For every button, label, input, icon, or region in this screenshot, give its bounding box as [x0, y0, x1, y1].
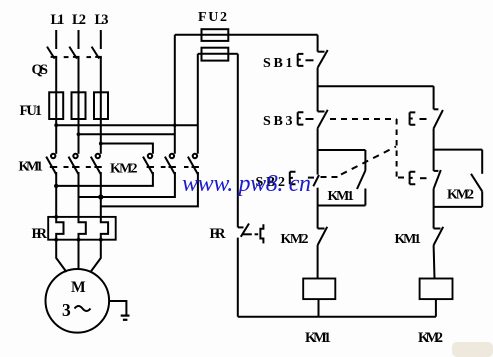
wire KM1 out phase2	[78, 172, 80, 217]
wire FU1 to KM1 contacts phase1	[55, 119, 57, 154]
svg-text:L1: L1	[51, 12, 65, 28]
svg-text:QS: QS	[32, 62, 49, 78]
wire to KM2 box	[433, 128, 435, 171]
wire FU2 top fuse left lead down	[174, 35, 176, 154]
coil KM2	[420, 279, 453, 300]
wire FR to motor mid	[78, 240, 80, 269]
wire L1 drop	[55, 30, 57, 49]
contactor KM1 self-hold box top	[318, 149, 366, 151]
wire bottom rail	[238, 316, 436, 318]
wire L2 drop	[78, 30, 80, 49]
svg-text:SB1: SB1	[263, 56, 293, 71]
wire SB1 top lead	[317, 35, 319, 52]
wire FR to motor right	[91, 240, 101, 272]
wire KM1 out phase1	[55, 172, 57, 217]
wire KM2 out1 crossover	[56, 172, 153, 186]
thermal contact FR in control	[238, 224, 264, 244]
fuse FU2-1	[175, 29, 229, 41]
KM1 box bottom	[318, 205, 366, 207]
KM1 auxiliary NO contact right side	[357, 150, 365, 206]
svg-text:L2: L2	[72, 12, 86, 28]
wire tap2 phase2 to FU2 feed	[79, 133, 175, 135]
button cap SB2	[290, 172, 296, 184]
contactor KM2 NC interlock contact	[318, 227, 328, 245]
wire KM2 coil to bottom rail	[435, 299, 437, 317]
button cap SB3 right	[410, 112, 416, 124]
node tap3 on phase3	[99, 142, 103, 146]
KM2 auxiliary NO contact right side	[471, 150, 482, 207]
svg-text:FR: FR	[210, 226, 227, 242]
wire QS to FU1 phase1	[55, 57, 57, 92]
wire tap1 phase1 to FU2 return	[56, 124, 198, 126]
svg-text:KM2: KM2	[110, 162, 138, 177]
node crossover1 on phase1	[54, 184, 58, 188]
wire motor to ground	[109, 301, 126, 315]
svg-text:SB3: SB3	[263, 114, 293, 129]
svg-text:KM2: KM2	[418, 330, 443, 346]
node FR bottom 3	[99, 238, 103, 242]
KM1 linkage dashes	[64, 166, 91, 168]
button cap SB3	[298, 112, 304, 124]
wire QS to FU1 phase2	[78, 57, 80, 92]
KM2 linkage dashes	[161, 166, 189, 168]
fuse FU2-2	[198, 48, 229, 61]
svg-text:L3: L3	[95, 12, 109, 28]
contactor KM2 self-hold box top	[434, 149, 483, 151]
SB3 interlock dashed link	[330, 119, 404, 178]
fuse FU1-1	[49, 92, 63, 119]
node FR top entry	[54, 215, 58, 219]
svg-text:FR: FR	[32, 226, 48, 242]
ground symbol	[121, 316, 130, 320]
fuse FU1-2	[72, 92, 86, 119]
node FR bottom 2	[77, 238, 81, 242]
coil KM1	[303, 279, 335, 300]
button cap SB1	[298, 54, 304, 66]
wire SB3 to KM1 box	[317, 128, 319, 174]
contactor KM1 main contact 1	[46, 154, 57, 175]
node tap1 on phase1	[54, 123, 58, 127]
FR heater element 3	[101, 217, 108, 240]
node FR bottom 1	[54, 238, 58, 242]
KM2 box bottom	[434, 206, 483, 208]
node crossover2 dot on phase3	[98, 194, 103, 199]
wire KM2 out3 crossover	[101, 172, 198, 206]
svg-text:KM1: KM1	[19, 160, 44, 175]
svg-text:FU2: FU2	[198, 10, 227, 25]
wire tap3 phase3 to KM2 contact1	[101, 144, 153, 154]
pushbutton SB3 NC contact	[306, 110, 328, 128]
wire branch node to right rail	[318, 85, 434, 87]
fuse FU1-3	[94, 92, 108, 119]
pushbutton SB2 NO contact	[308, 175, 319, 186]
wire right branch upper	[433, 86, 435, 109]
button cap SB2 right	[410, 172, 416, 184]
svg-text:KM1: KM1	[328, 189, 355, 204]
FR heater element 2	[79, 217, 86, 240]
wire FU2 bottom fuse to left rail	[228, 53, 238, 55]
FR heater element 1	[56, 217, 63, 240]
contactor KM1 main contact 3	[91, 154, 102, 175]
wire left rail lower	[237, 238, 239, 317]
wire FR to motor left	[56, 240, 66, 272]
svg-text:FU1: FU1	[20, 103, 43, 119]
wire to KM1 coil	[317, 245, 319, 278]
wire SB2 to KM2 NC	[317, 188, 319, 229]
node tap2 on phase2	[77, 132, 81, 136]
pushbutton SB3 NO contact right branch	[420, 109, 443, 128]
stamp smudge bottom right	[452, 342, 493, 357]
contactor KM2 main contact 3	[188, 154, 199, 175]
svg-text:3: 3	[62, 300, 71, 320]
wire KM1 out phase3	[100, 172, 102, 217]
wire KM1 coil to bottom rail	[318, 299, 320, 317]
wire QS to FU1 phase3	[100, 57, 102, 92]
contactor KM2 main contact 1	[143, 154, 154, 175]
contactor KM2 main contact 2	[165, 154, 176, 175]
wire left rail upper	[237, 54, 239, 228]
node FU2 feed crossing	[173, 124, 176, 127]
motor M circle	[46, 269, 110, 333]
thermal relay FR box	[48, 217, 116, 240]
wire FU1 to KM1 contacts phase2	[78, 119, 80, 154]
wire FU2 bottom fuse left lead down	[197, 54, 199, 154]
QS linkage dashes	[64, 56, 91, 58]
pushbutton SB1 NC contact	[306, 50, 328, 68]
switch QS pole 1	[47, 47, 57, 59]
svg-text:KM1: KM1	[305, 330, 331, 346]
wire FU2 top fuse to SB1 rail	[228, 34, 317, 36]
wire SB2NC to KM1 NC	[433, 189, 435, 229]
svg-text:www. pw8. cn: www. pw8. cn	[182, 171, 311, 197]
contactor KM1 main contact 2	[69, 154, 80, 175]
wire SB1 to SB3	[317, 68, 319, 112]
wire to KM2 coil	[433, 245, 436, 278]
pushbutton SB2 NC contact right branch	[420, 170, 441, 189]
wire KM2 out2 crossover	[79, 172, 175, 197]
svg-text:KM1: KM1	[395, 232, 422, 247]
svg-text:KM2: KM2	[447, 188, 474, 203]
SB2 interlock dashed link	[321, 147, 397, 178]
contactor KM1 NC interlock contact	[434, 227, 444, 245]
switch QS pole 2	[69, 47, 79, 59]
svg-text:KM2: KM2	[281, 232, 309, 247]
wire FU1 to KM1 contacts phase3	[100, 119, 102, 154]
switch QS pole 3	[92, 47, 102, 59]
wire L3 drop	[100, 30, 102, 49]
svg-text:M: M	[71, 279, 86, 296]
